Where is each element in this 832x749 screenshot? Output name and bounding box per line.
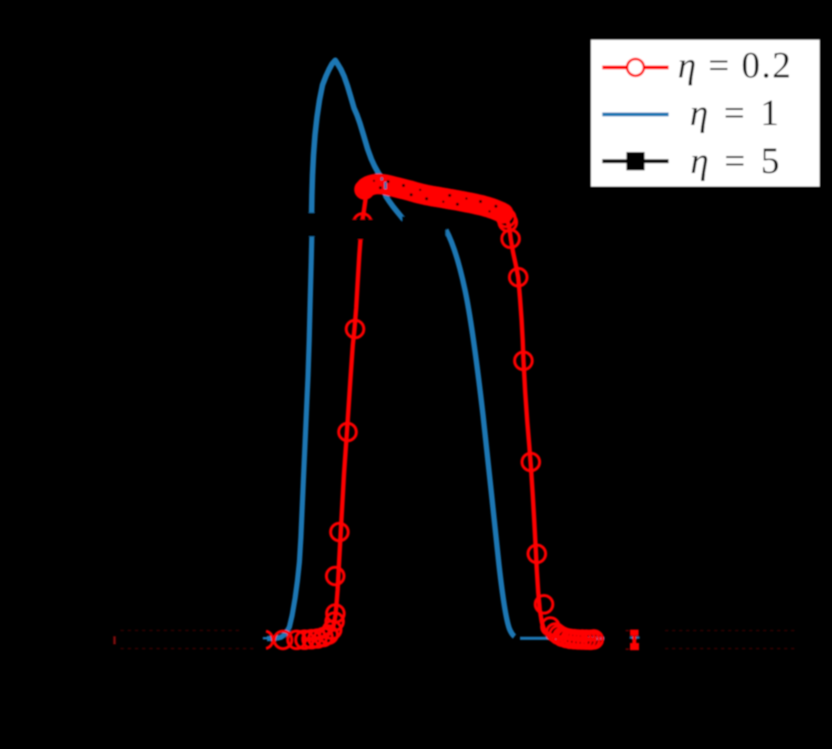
brighter dash pair near bowtie: [626, 630, 629, 631]
faint covered-marker dashes left rows: [121, 630, 254, 650]
curve eta=0.2 red main line: [302, 184, 597, 640]
legend entry eta=5 line+marker: [602, 159, 668, 163]
faint covered-marker dashes right rows: [665, 630, 794, 649]
black eater rect: Y cutoff on red rise: [349, 219, 375, 239]
black eater rect: blue right flank gap: [402, 216, 446, 236]
curve eta=1 blue right flank lower piece: [446, 230, 515, 637]
legend entry eta=0.2 line+marker: [602, 66, 668, 70]
svg-text:η = 0.2: η = 0.2: [678, 46, 792, 87]
blue line bits at bowtie: [630, 637, 633, 639]
svg-text:η = 1: η = 1: [690, 93, 782, 134]
curve eta=0.2 red circle markers: [274, 175, 602, 649]
red half-circle marker at x=264 (left part hidden): [266, 631, 273, 648]
blue specks through band holes: [384, 182, 386, 189]
legend box: [590, 39, 821, 188]
red marker remnant (bowtie) at x=634: [630, 630, 639, 651]
svg-text:η = 5: η = 5: [690, 141, 782, 182]
black eater rect: blue left flank gap: [306, 213, 319, 237]
first red marker sliver (vertical dash): [113, 636, 116, 644]
legend entry eta=1 line: [602, 113, 668, 117]
black open-center dots on band: [373, 180, 498, 213]
curve eta=1 blue main peak piece: [312, 60, 404, 219]
blue baseline segment right: [520, 637, 605, 640]
blue baseline sliver left: [263, 637, 278, 639]
